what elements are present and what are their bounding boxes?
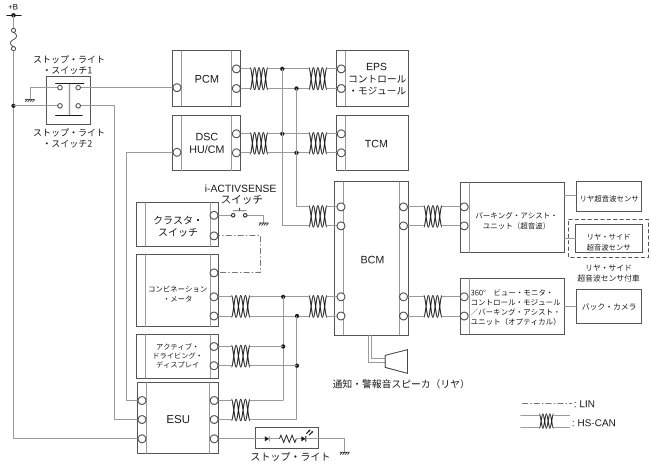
module active driving display label	[155, 343, 201, 368]
switch actuator link	[69, 84, 71, 116]
wire CAN-L row1	[268, 88, 309, 90]
module EPS label	[350, 63, 406, 95]
pin ESU CAN-L	[210, 416, 218, 424]
junction active display CAN-L	[295, 364, 299, 368]
wire active display CAN-H	[250, 346, 283, 348]
pin combination meter CAN-L	[210, 312, 218, 320]
pin ESU stop light	[210, 435, 218, 443]
pin 360 CAN-H	[460, 293, 468, 301]
junction CAN-L row2	[294, 151, 298, 155]
wire parking CAN-L stub	[442, 225, 464, 227]
twisted pair parking assist	[424, 206, 442, 228]
twisted pair BCM lower	[309, 296, 327, 318]
node +B	[7, 4, 22, 16]
pin PCM CAN-L	[233, 85, 241, 93]
module PCM box	[173, 51, 241, 107]
module rear ultrasonic sensor box	[577, 182, 642, 212]
twisted pair active driving display	[232, 345, 251, 367]
pin EPS CAN-H	[337, 65, 345, 73]
legend HS-CAN lines	[520, 416, 570, 428]
switch SW1 contact a	[58, 85, 62, 89]
module back camera label	[582, 303, 635, 310]
wire BCM lower CAN-H stub	[327, 296, 341, 298]
wire cluster switch to i-ACTIVSENSE switch	[214, 215, 232, 217]
wire stop-light-switch2 to +B	[14, 105, 61, 107]
module PCM label	[196, 75, 219, 83]
module combination meter label	[149, 286, 206, 302]
wire combination meter CAN-L stub	[214, 316, 232, 318]
pin active display CAN-H	[210, 343, 218, 351]
module 360 view box	[461, 279, 565, 335]
switch SW1 contact b	[76, 85, 80, 89]
wire PCM CAN-L stub	[236, 88, 250, 90]
pin DSC left	[173, 148, 181, 156]
note rear side option label	[578, 264, 640, 281]
module back camera box	[577, 290, 642, 324]
wire BCM upper CAN-H stub	[327, 206, 341, 208]
twisted pair ESU	[232, 399, 251, 421]
speaker rear warning	[385, 350, 407, 374]
pin DSC CAN-L	[233, 149, 241, 157]
module cluster switch box	[137, 203, 219, 247]
LED D2	[301, 429, 319, 441]
legend HS-CAN label	[573, 419, 615, 426]
pin PCM CAN-H	[233, 65, 241, 73]
wire BCM to 360 stub L	[404, 316, 424, 318]
wire TCM CAN-H stub	[327, 133, 341, 135]
module ESU box	[138, 382, 219, 454]
wire 360 CAN-L stub	[442, 316, 464, 318]
module 360 view label	[471, 289, 560, 325]
wire TCM CAN-L stub	[327, 152, 341, 154]
wire DSC CAN-L stub	[236, 152, 250, 154]
pin BCM right CAN-L lower	[400, 312, 408, 320]
module DSC label	[190, 133, 223, 153]
switch SW2 contact b	[76, 104, 80, 108]
twisted pair TCM	[309, 133, 327, 155]
module active driving display box	[137, 334, 219, 378]
wire ESU CAN-H stub	[214, 400, 231, 402]
module TCM label	[365, 140, 387, 148]
wire EPS CAN-L stub	[327, 88, 341, 90]
lamp stop light box	[256, 428, 319, 449]
junction CAN-H row2	[280, 132, 284, 136]
pin parking CAN-H	[460, 203, 468, 211]
pin TCM CAN-H	[337, 130, 345, 138]
wire BCM lower CAN-L stub	[327, 316, 341, 318]
twisted pair combination meter	[232, 296, 251, 318]
wire i-ACTIVSENSE switch to ground	[247, 216, 264, 224]
module ESU label	[167, 415, 189, 423]
pin combination meter CAN-H	[210, 293, 218, 301]
switch SW i-ACTIVSENSE	[232, 208, 247, 217]
module rear ultrasonic sensor label	[581, 195, 638, 202]
wire ESU to stop light	[214, 438, 255, 440]
wire parking to rear side sensor	[564, 238, 576, 240]
pin BCM left CAN-L lower	[337, 312, 345, 320]
wire CAN-L row2	[268, 152, 309, 154]
wire resistor to LED	[296, 438, 301, 440]
wire combination meter CAN-H stub	[214, 296, 232, 298]
switch stop light switch box	[47, 77, 91, 125]
pin active display CAN-L	[210, 362, 218, 370]
legend HS-CAN braid	[539, 414, 553, 429]
diode D1	[256, 436, 270, 442]
wire ESU CAN-H	[250, 400, 283, 402]
label i-ACTIVSENSE switch	[205, 184, 276, 204]
pin BCM right CAN-L upper	[400, 222, 408, 230]
junction CAN-L lower	[295, 314, 299, 318]
module parking assist unit box	[461, 182, 565, 252]
wire BCM upper CAN-L stub	[327, 225, 341, 227]
switch SW2 contact a	[58, 104, 62, 108]
label stop light switch 2	[34, 128, 104, 147]
ground G3	[340, 452, 350, 455]
legend LIN label	[575, 400, 594, 407]
wire parking to rear sensor	[564, 195, 576, 197]
twisted pair PCM	[250, 68, 268, 90]
wire EPS CAN-H stub	[327, 68, 341, 70]
pin BCM right CAN-H upper	[400, 203, 408, 211]
twisted pair BCM upper	[309, 206, 327, 228]
wire CAN-H row2	[268, 133, 309, 135]
pin ESU CAN-H	[210, 397, 218, 405]
junction +B terminal	[11, 13, 15, 17]
wire CAN-L lower	[250, 316, 309, 318]
ground G2	[259, 223, 269, 226]
junction CAN-H lower	[281, 295, 285, 299]
pin cluster switch LIN	[210, 232, 218, 240]
wire BCM to 360 stub H	[404, 296, 424, 298]
module BCM label	[361, 256, 383, 264]
wire active display CAN-H stub	[214, 346, 232, 348]
resistor R1	[280, 435, 297, 442]
wire +B to fuse	[13, 15, 15, 28]
module DSC HU/CM box	[173, 116, 241, 172]
junction +B / stop-light-switch-2	[11, 104, 15, 108]
pin 360 CAN-L	[460, 312, 468, 320]
wire CAN-H lower	[250, 296, 309, 298]
twisted pair DSC	[250, 133, 268, 155]
junction active display CAN-H	[281, 344, 285, 348]
wire LIN cluster to combination meter	[214, 236, 261, 273]
pin ESU left DSC	[138, 397, 146, 405]
wire CAN bus right vertical	[297, 89, 309, 207]
ground G1	[25, 99, 35, 102]
label stop light	[251, 452, 329, 461]
label stop light switch 1	[34, 55, 104, 74]
wire ESU CAN-L	[250, 419, 297, 421]
wire stop-light-switch1 to ground	[31, 88, 61, 100]
wire 360 CAN-H stub	[442, 296, 464, 298]
junction CAN-L row1	[294, 86, 298, 90]
pin combination meter LIN	[210, 269, 218, 277]
wire lower bus left drop	[283, 297, 285, 401]
pin EPS CAN-L	[337, 85, 345, 93]
pin PCM left	[173, 84, 181, 92]
wire CAN bus left vertical	[283, 69, 309, 226]
wire BCM speaker +	[369, 335, 386, 362]
fuse F1	[11, 28, 17, 50]
twisted pair EPS	[309, 68, 327, 90]
wire parking CAN-H stub	[442, 206, 464, 208]
module TCM box	[337, 116, 409, 172]
wire BCM to parking stub L	[404, 225, 424, 227]
module cluster switch label	[154, 216, 199, 237]
wire BCM to parking stub H	[404, 206, 424, 208]
pin BCM right CAN-H lower	[400, 293, 408, 301]
pin TCM CAN-L	[337, 149, 345, 157]
wire CAN-H row1	[268, 68, 309, 70]
wire active display CAN-L stub	[214, 365, 232, 367]
pin ESU left switch	[138, 416, 146, 424]
pin parking CAN-L	[460, 222, 468, 230]
legend LIN line	[522, 403, 572, 405]
wire DSC CAN-H stub	[236, 133, 250, 135]
wire BCM speaker -	[372, 335, 386, 358]
pin BCM left CAN-H lower	[337, 293, 345, 301]
pin BCM left CAN-L upper	[337, 222, 345, 230]
twisted pair 360 view	[424, 296, 442, 318]
wire lower bus right drop	[296, 316, 298, 420]
pin ESU left +B	[138, 435, 146, 443]
pin BCM left CAN-H upper	[337, 203, 345, 211]
wire stop light to ground	[319, 439, 345, 453]
module combination meter box	[137, 255, 219, 328]
wire ESU CAN-L stub	[214, 419, 231, 421]
pin cluster switch upper	[210, 211, 218, 219]
switch SW1 bar	[55, 83, 84, 85]
wire diode to resistor	[269, 438, 279, 440]
module BCM box	[335, 182, 409, 336]
pin DSC CAN-H	[233, 130, 241, 138]
module rear side ultrasonic sensor box	[576, 225, 643, 253]
module parking assist label	[476, 212, 555, 229]
wire stop-light-switch1 to PCM	[78, 87, 177, 89]
junction CAN-H row1	[280, 67, 284, 71]
wire stop-light-switch2 to ESU	[78, 106, 142, 420]
wire DSC to ESU	[127, 153, 178, 401]
wire +B rail down	[13, 51, 15, 439]
label speaker	[333, 379, 463, 388]
dashed option box	[569, 220, 649, 258]
wire active display CAN-L	[250, 365, 297, 367]
wire 360 to back camera	[564, 306, 576, 308]
wire +B rail to ESU	[14, 438, 143, 440]
wire PCM CAN-H stub	[236, 68, 250, 70]
switch SW2 bar	[55, 115, 82, 117]
module EPS box	[337, 51, 409, 107]
module rear side ultrasonic sensor label	[587, 234, 630, 251]
